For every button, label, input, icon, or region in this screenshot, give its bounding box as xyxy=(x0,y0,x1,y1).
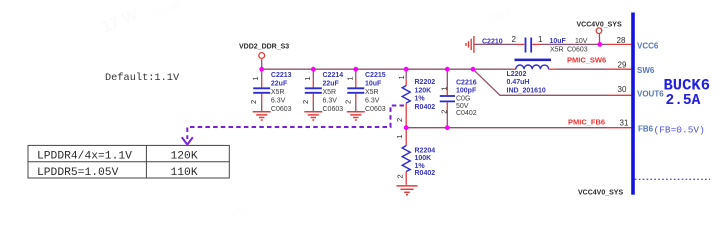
svg-text:10uF: 10uF xyxy=(550,38,567,45)
watermark top left xyxy=(100,0,181,38)
svg-text:R0402: R0402 xyxy=(415,104,436,111)
svg-text:22uF: 22uF xyxy=(271,81,288,88)
svg-text:C0402: C0402 xyxy=(456,110,477,117)
callout purple dashed line xyxy=(182,106,404,145)
svg-text:2: 2 xyxy=(301,100,310,104)
svg-text:VDD2_DDR_S3: VDD2_DDR_S3 xyxy=(239,44,289,51)
BUCK6 block edge bar xyxy=(631,13,635,195)
resistor R2202 xyxy=(395,69,435,128)
svg-text:L2202: L2202 xyxy=(507,71,527,78)
svg-text:1: 1 xyxy=(345,76,354,80)
svg-text:C2213: C2213 xyxy=(271,72,292,79)
svg-text:R0402: R0402 xyxy=(415,170,436,177)
svg-text:10V: 10V xyxy=(575,38,588,45)
svg-text:LPDDR5=1.05V: LPDDR5=1.05V xyxy=(37,167,119,179)
svg-text:LPDDR4/4x=1.1V: LPDDR4/4x=1.1V xyxy=(37,151,132,163)
ground under R2204 xyxy=(397,186,418,195)
svg-text:X5R: X5R xyxy=(365,89,379,96)
svg-text:0.47uH: 0.47uH xyxy=(507,79,530,86)
svg-text:100K: 100K xyxy=(415,155,432,162)
svg-text:29: 29 xyxy=(618,60,627,69)
svg-text:110K: 110K xyxy=(171,167,198,179)
svg-text:2: 2 xyxy=(343,100,352,104)
pin stub FB6 xyxy=(605,127,632,129)
capacitor C2213 xyxy=(249,69,291,113)
svg-text:X5R: X5R xyxy=(550,46,564,53)
svg-text:1%: 1% xyxy=(415,96,426,103)
svg-text:1: 1 xyxy=(395,135,404,139)
svg-text:1: 1 xyxy=(439,87,448,91)
svg-text:(FB=0.5V): (FB=0.5V) xyxy=(654,124,705,135)
svg-text:1: 1 xyxy=(538,35,543,44)
svg-text:6.3V: 6.3V xyxy=(323,98,338,105)
wire L2202 to pin 29 xyxy=(556,68,605,70)
svg-text:2.5A: 2.5A xyxy=(666,93,701,109)
svg-text:31: 31 xyxy=(620,119,629,128)
svg-text:VCC6: VCC6 xyxy=(637,41,659,50)
ground under C2214 xyxy=(304,112,322,120)
svg-text:C2210: C2210 xyxy=(482,38,503,45)
svg-text:IND_201610: IND_201610 xyxy=(507,87,546,94)
svg-text:X5R: X5R xyxy=(323,89,337,96)
svg-text:R2202: R2202 xyxy=(415,79,436,86)
svg-text:22uF: 22uF xyxy=(323,81,340,88)
wire main bus xyxy=(262,68,513,70)
svg-text:SW6: SW6 xyxy=(637,66,655,75)
svg-text:2: 2 xyxy=(395,118,404,122)
svg-text:C2214: C2214 xyxy=(323,72,344,79)
wire feedback to pin 31 xyxy=(406,127,605,129)
pin stub VCC6 xyxy=(600,43,607,45)
capacitor C2216 xyxy=(439,69,477,128)
svg-text:C0603: C0603 xyxy=(365,106,386,113)
wire port to bus xyxy=(261,59,263,69)
ground under C2215 xyxy=(347,112,365,120)
ground under C2213 xyxy=(253,112,271,120)
svg-text:120K: 120K xyxy=(415,88,432,95)
svg-text:28: 28 xyxy=(617,36,626,45)
capacitor C2210 (series) xyxy=(475,35,600,53)
svg-text:PMIC_FB6: PMIC_FB6 xyxy=(568,118,605,127)
svg-text:2: 2 xyxy=(439,110,448,114)
svg-text:Default:1.1V: Default:1.1V xyxy=(105,72,180,84)
svg-text:10uF: 10uF xyxy=(365,81,382,88)
svg-text:1%: 1% xyxy=(415,163,426,170)
table LPDDR values xyxy=(28,145,229,178)
svg-text:30: 30 xyxy=(618,85,627,94)
port VDD2_DDR_S3 circle xyxy=(259,53,265,59)
svg-text:100pF: 100pF xyxy=(456,88,477,95)
svg-text:1: 1 xyxy=(251,76,260,80)
port VCC4V0_SYS circle xyxy=(596,28,602,34)
pin stub VOUT6 xyxy=(608,94,632,96)
wire VCC4V0 port down xyxy=(598,34,600,45)
svg-text:R2204: R2204 xyxy=(415,148,436,155)
svg-text:VOUT6: VOUT6 xyxy=(637,89,664,98)
svg-text:C0G: C0G xyxy=(456,96,470,103)
pin stub SW6 xyxy=(605,68,632,70)
svg-text:PMIC_SW6: PMIC_SW6 xyxy=(567,56,606,65)
capacitor C2214 xyxy=(301,69,343,113)
svg-text:6.3V: 6.3V xyxy=(271,98,286,105)
watermark top middle xyxy=(487,9,510,26)
svg-text:1: 1 xyxy=(397,75,406,79)
svg-text:6.3V: 6.3V xyxy=(365,98,380,105)
svg-text:2: 2 xyxy=(396,174,405,178)
resistor R2204 xyxy=(395,128,435,185)
svg-text:1: 1 xyxy=(303,76,312,80)
wire bus branch diagonal to VOUT xyxy=(473,69,608,95)
svg-text:FB6: FB6 xyxy=(638,125,654,134)
svg-text:120K: 120K xyxy=(171,151,198,163)
power symbol (VCC tap) left of C2210 xyxy=(466,36,474,53)
capacitor C2215 xyxy=(343,69,385,113)
inductor L2202 xyxy=(507,59,557,95)
svg-text:C2215: C2215 xyxy=(365,72,386,79)
BUCK6 block dotted bottom line xyxy=(635,178,710,180)
svg-text:2: 2 xyxy=(249,100,258,104)
svg-text:VCC4V0_SYS: VCC4V0_SYS xyxy=(577,21,622,28)
junction node dots xyxy=(259,42,602,130)
svg-text:C0603: C0603 xyxy=(567,46,588,53)
svg-text:2: 2 xyxy=(512,35,517,44)
svg-text:C0603: C0603 xyxy=(271,106,292,113)
svg-text:BUCK6: BUCK6 xyxy=(664,76,711,94)
svg-text:VCC4V0_SYS: VCC4V0_SYS xyxy=(578,190,623,197)
svg-text:X5R: X5R xyxy=(271,89,285,96)
svg-text:C0603: C0603 xyxy=(323,106,344,113)
watermark bottom left xyxy=(228,204,254,218)
svg-text:50V: 50V xyxy=(456,103,469,110)
svg-text:C2216: C2216 xyxy=(456,79,477,86)
